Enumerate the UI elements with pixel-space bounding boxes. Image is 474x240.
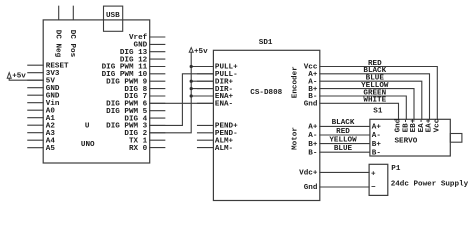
wire Gnd to P1 -	[320, 186, 369, 188]
svg-text:Gnd: Gnd	[304, 184, 318, 192]
svg-text:BLUE: BLUE	[334, 145, 353, 153]
svg-text:Encoder: Encoder	[291, 66, 299, 98]
power supply P1 body	[369, 164, 388, 195]
svg-text:USB: USB	[106, 12, 120, 20]
svg-text:B+: B+	[372, 141, 382, 149]
wire encoder Vcc/RED	[320, 67, 438, 120]
svg-text:EA+: EA+	[426, 118, 434, 132]
svg-text:A-: A-	[372, 132, 381, 140]
wire DIG PWM 3 to PULL-	[150, 74, 214, 126]
svg-text:A+: A+	[308, 124, 318, 132]
stepper driver SD1 body	[213, 50, 319, 200]
junction dot PULL+	[190, 65, 193, 68]
wire rail to DIR+	[191, 80, 213, 82]
wire encoder Gnd/WHITE	[320, 103, 399, 119]
wire motor A-	[320, 134, 370, 136]
svg-text:+: +	[371, 170, 376, 178]
wire encoder B-/GREEN	[320, 96, 407, 119]
servo connector S1 body	[370, 119, 450, 156]
svg-text:B-: B-	[372, 149, 381, 157]
svg-text:SERVO: SERVO	[395, 137, 418, 145]
svg-text:A5: A5	[46, 145, 56, 153]
svg-text:Motor: Motor	[291, 127, 299, 150]
S1 connector tab	[450, 134, 462, 143]
svg-text:EB+: EB+	[410, 118, 418, 132]
U left pin stubs (RESET..A5)	[28, 64, 43, 66]
junction dot ENA+	[190, 94, 193, 97]
USB connector box	[104, 6, 123, 31]
svg-text:BLACK: BLACK	[332, 119, 355, 127]
svg-text:CS-D808: CS-D808	[250, 89, 282, 97]
power flag +5v (left)	[7, 73, 11, 79]
svg-text:−: −	[371, 184, 376, 192]
svg-text:DC Neg: DC Neg	[53, 30, 61, 58]
svg-text:P1: P1	[391, 165, 401, 173]
svg-text:Vdc+: Vdc+	[299, 170, 318, 178]
wire DC Neg (top)	[58, 6, 60, 20]
svg-text:Gnd: Gnd	[304, 101, 318, 109]
svg-text:Gnd: Gnd	[395, 118, 403, 132]
wire +5v rail down to DIG 2	[150, 52, 192, 133]
svg-text:ALM-: ALM-	[215, 145, 233, 153]
svg-text:RED: RED	[336, 128, 350, 136]
svg-text:RX 0: RX 0	[129, 145, 148, 153]
wire rail to ENA+	[191, 95, 213, 97]
wire DC Pos (top)	[72, 6, 74, 20]
svg-text:U: U	[85, 122, 90, 130]
svg-text:A+: A+	[372, 124, 382, 132]
svg-text:YELLOW: YELLOW	[329, 136, 357, 144]
junction dot DIR+	[190, 80, 193, 83]
wire Vdc+ to P1 +	[320, 171, 369, 173]
svg-text:SD1: SD1	[259, 39, 273, 47]
wire motor B-	[320, 151, 370, 153]
svg-text:+5v: +5v	[12, 72, 26, 80]
svg-text:+5v: +5v	[194, 48, 208, 56]
wire encoder B+/YELLOW	[320, 89, 414, 120]
svg-text:WHITE: WHITE	[363, 97, 386, 105]
wire motor A+	[320, 125, 370, 127]
svg-text:24dc Power Supply: 24dc Power Supply	[391, 180, 469, 188]
svg-text:S1: S1	[373, 107, 383, 115]
svg-text:B+: B+	[308, 141, 318, 149]
wire encoder A+/BLACK	[320, 74, 430, 120]
wire rail to DIR-	[191, 88, 213, 90]
wire DIG PWM 6 to ENA-	[150, 102, 214, 104]
wire rail to PULL+	[191, 66, 213, 68]
svg-text:A-: A-	[308, 132, 317, 140]
microcontroller U (Arduino UNO) body	[43, 20, 150, 163]
U right pin stubs (Vref..RX 0)	[150, 36, 165, 38]
svg-text:B-: B-	[308, 149, 317, 157]
svg-text:DC Pos: DC Pos	[68, 30, 76, 58]
wire +5v to 5V pin	[9, 78, 43, 80]
svg-text:ENA-: ENA-	[215, 101, 233, 109]
SD1 left pin stubs	[198, 66, 214, 68]
svg-text:Vcc: Vcc	[433, 118, 441, 132]
svg-text:UNO: UNO	[81, 141, 95, 149]
wire motor B+	[320, 143, 370, 145]
junction dot DIR-	[190, 87, 193, 90]
wire encoder A-/BLUE	[320, 81, 422, 119]
power flag +5v (rail)	[189, 48, 193, 53]
